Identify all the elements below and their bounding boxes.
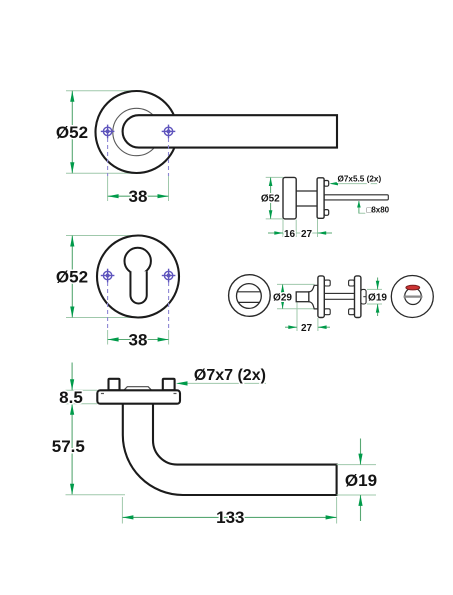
svg-text:Ø52: Ø52: [56, 268, 88, 287]
svg-text:57.5: 57.5: [52, 437, 85, 456]
svg-text:Ø19: Ø19: [368, 292, 387, 303]
svg-text:27: 27: [301, 323, 313, 334]
svg-text:Ø52: Ø52: [261, 193, 280, 204]
svg-text:27: 27: [301, 229, 313, 240]
svg-text:□8x80: □8x80: [367, 205, 390, 214]
svg-text:133: 133: [216, 508, 244, 527]
svg-text:Ø7x5.5 (2x): Ø7x5.5 (2x): [338, 174, 382, 183]
svg-text:38: 38: [129, 330, 148, 349]
svg-text:Ø7x7 (2x): Ø7x7 (2x): [194, 367, 266, 384]
svg-text:Ø29: Ø29: [273, 292, 292, 303]
svg-text:16: 16: [284, 229, 296, 240]
svg-text:Ø52: Ø52: [56, 123, 88, 142]
svg-text:38: 38: [129, 187, 148, 206]
svg-text:8.5: 8.5: [59, 388, 83, 407]
svg-text:Ø19: Ø19: [345, 471, 377, 490]
